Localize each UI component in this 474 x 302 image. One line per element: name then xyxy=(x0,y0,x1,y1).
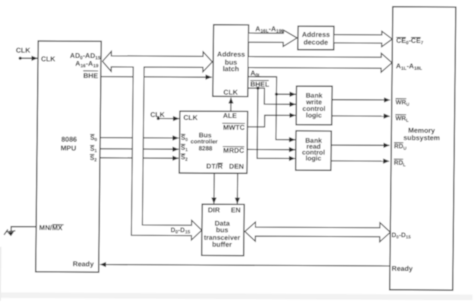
D0-D15 bus buffer to memory (bidirectional) xyxy=(245,222,391,242)
svg-text:Ready: Ready xyxy=(73,261,94,268)
wire A0L latch to write and read logic xyxy=(248,70,296,139)
svg-text:logic: logic xyxy=(305,155,321,162)
bank read control logic block xyxy=(296,131,332,170)
ground symbol on MN/MX input xyxy=(4,227,36,237)
svg-text:Address: Address xyxy=(302,32,330,39)
wire CLK input to bus controller xyxy=(150,112,179,120)
wire WRL write logic to memory xyxy=(332,115,390,117)
address decode block xyxy=(298,26,334,50)
svg-text:latch: latch xyxy=(223,66,239,73)
wire DT/R to buffer DIR xyxy=(213,173,215,204)
wire MWTC controller to bank write logic xyxy=(247,115,295,127)
wire RDL read logic to memory xyxy=(331,160,389,162)
wire ALE controller to latch CLK xyxy=(230,97,232,111)
scan artifact left edge xyxy=(0,247,1,301)
wire S1 MPU to controller xyxy=(100,148,179,150)
bus controller 8288 block xyxy=(179,111,247,173)
svg-text:MN/MX: MN/MX xyxy=(39,225,63,232)
wire MRDC controller to bank read logic xyxy=(247,148,295,150)
wire S0 MPU to controller xyxy=(100,137,179,139)
wire Ready memory to MPU xyxy=(100,265,390,266)
wire BHE MPU to latch xyxy=(101,76,212,79)
svg-text:CLK: CLK xyxy=(41,56,55,63)
svg-text:Ready: Ready xyxy=(392,266,413,273)
wire RDU read logic to memory xyxy=(331,144,389,146)
svg-text:MPU: MPU xyxy=(61,145,77,152)
svg-text:CLK: CLK xyxy=(183,115,197,122)
wire CLK input to MPU xyxy=(16,48,38,60)
svg-text:MRDC: MRDC xyxy=(223,148,244,155)
svg-text:bus: bus xyxy=(216,227,229,234)
wire DEN to buffer EN xyxy=(236,173,238,204)
CE0-CE7 bus decode to memory xyxy=(334,31,392,47)
A16L-A19L bus latch to address decode xyxy=(249,26,298,46)
memory subsystem block xyxy=(390,7,456,290)
svg-text:Address: Address xyxy=(217,51,245,58)
wire WRU write logic to memory xyxy=(332,99,390,101)
address bus latch block xyxy=(213,25,249,97)
svg-text:MWTC: MWTC xyxy=(223,125,245,132)
svg-text:ALE: ALE xyxy=(223,113,237,120)
scan artifact bottom band xyxy=(0,292,472,300)
svg-text:DT/R: DT/R xyxy=(206,164,222,171)
svg-text:decode: decode xyxy=(303,40,328,47)
data bus transceiver buffer block xyxy=(202,204,245,255)
svg-text:CLK: CLK xyxy=(16,48,30,55)
wire S2 MPU to controller xyxy=(100,157,179,159)
8086 MPU block U1 xyxy=(36,41,102,272)
svg-text:subsystem: subsystem xyxy=(403,135,440,142)
svg-text:Bus: Bus xyxy=(199,132,212,139)
wire BHEL latch to write and read logic xyxy=(247,80,296,158)
AD0-AD15 A16-A19 bus MPU to latch with D0-D15 branch down to buffer xyxy=(101,51,213,240)
svg-text:DIR: DIR xyxy=(208,207,220,214)
svg-text:BHE: BHE xyxy=(83,73,98,80)
svg-text:EN: EN xyxy=(231,207,241,214)
svg-text:CLK: CLK xyxy=(223,90,237,97)
A1L-A18L address bus latch to memory xyxy=(248,53,392,73)
bank write control logic block xyxy=(296,86,332,125)
svg-text:8086: 8086 xyxy=(61,137,77,144)
svg-text:DEN: DEN xyxy=(229,164,244,171)
svg-text:8288: 8288 xyxy=(199,145,213,152)
svg-text:buffer: buffer xyxy=(212,242,232,249)
svg-text:Memory: Memory xyxy=(408,128,435,135)
svg-text:logic: logic xyxy=(306,112,322,119)
